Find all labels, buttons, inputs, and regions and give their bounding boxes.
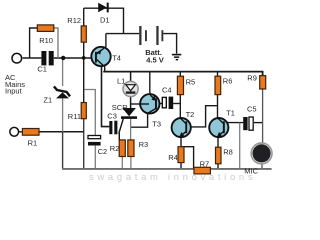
svg-text:T3: T3 <box>152 120 161 129</box>
svg-text:T1: T1 <box>226 108 235 117</box>
svg-text:R11: R11 <box>68 112 81 121</box>
svg-text:D1: D1 <box>100 15 110 24</box>
svg-text:Z1: Z1 <box>43 95 52 104</box>
svg-text:R4: R4 <box>168 153 178 162</box>
svg-text:R9: R9 <box>247 73 257 82</box>
svg-text:R1: R1 <box>28 139 38 148</box>
svg-text:swagatam innovations: swagatam innovations <box>89 172 255 183</box>
svg-text:R5: R5 <box>186 77 196 86</box>
svg-text:R10: R10 <box>39 36 53 45</box>
svg-text:Input: Input <box>5 86 23 95</box>
svg-text:L1: L1 <box>117 76 125 85</box>
svg-text:R3: R3 <box>139 140 149 149</box>
svg-text:T2: T2 <box>186 110 195 119</box>
svg-text:C3: C3 <box>107 112 117 121</box>
svg-text:C1: C1 <box>37 64 47 73</box>
svg-text:C2: C2 <box>98 147 108 156</box>
svg-text:R12: R12 <box>67 16 81 25</box>
svg-text:C5: C5 <box>247 104 257 113</box>
svg-text:R6: R6 <box>223 77 233 86</box>
svg-text:C4: C4 <box>162 86 172 95</box>
svg-text:R2: R2 <box>110 144 120 153</box>
svg-text:MIC: MIC <box>244 166 258 175</box>
svg-text:4.5 V: 4.5 V <box>146 56 164 65</box>
svg-text:T4: T4 <box>112 54 121 63</box>
svg-text:R8: R8 <box>223 147 233 156</box>
svg-text:R7: R7 <box>200 159 210 168</box>
